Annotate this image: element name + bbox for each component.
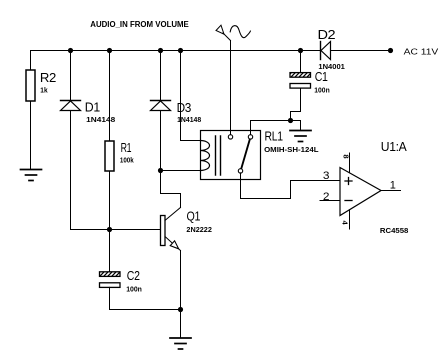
ground below R2 bbox=[21, 170, 42, 181]
node junction dot base rail bbox=[107, 227, 112, 232]
capacitor C1 bbox=[290, 51, 311, 121]
capacitor C2 bbox=[100, 230, 181, 310]
wire D1/R1 base rail bbox=[71, 229, 161, 231]
wire coil bottom tap to relay bbox=[161, 170, 201, 172]
svg-text:AUDIO_IN FROM VOLUME: AUDIO_IN FROM VOLUME bbox=[90, 20, 189, 29]
svg-text:1k: 1k bbox=[40, 86, 48, 95]
svg-text:AC 11V: AC 11V bbox=[404, 46, 439, 56]
transistor Q1 bbox=[161, 208, 181, 339]
svg-text:D3: D3 bbox=[177, 100, 192, 115]
relay pin circle coil top bbox=[228, 135, 232, 139]
node junction dot D3 branch bbox=[158, 48, 163, 53]
core bars bbox=[216, 136, 221, 175]
node junction dot relay coil branch bbox=[178, 48, 183, 53]
svg-text:100n: 100n bbox=[314, 86, 330, 95]
wire D3 cathode to relay coil tap and Q1 collector jog bbox=[161, 194, 181, 208]
wire bus to relay coil top bbox=[181, 51, 201, 141]
ground at emitter bbox=[170, 338, 191, 349]
AC input antenna symbol bbox=[216, 25, 250, 137]
svg-text:3: 3 bbox=[323, 170, 330, 182]
svg-text:D2: D2 bbox=[318, 27, 336, 42]
node junction dot C1 branch bbox=[298, 48, 303, 53]
node junction dot emitter/C2 bbox=[178, 307, 183, 312]
wire relay output to op-amp pin 3 bbox=[241, 173, 341, 199]
relay pin circle moving contact bbox=[238, 169, 242, 173]
wire main supply bus y=50 bbox=[31, 50, 321, 52]
power pin 8 top bbox=[349, 153, 351, 173]
svg-text:100n: 100n bbox=[126, 284, 142, 293]
output pin 1 wire bbox=[381, 190, 401, 192]
resistor R1 bbox=[105, 51, 114, 230]
svg-text:2: 2 bbox=[323, 191, 330, 203]
svg-text:1N4001: 1N4001 bbox=[318, 62, 345, 71]
svg-text:OMIH-SH-124L: OMIH-SH-124L bbox=[264, 145, 319, 154]
svg-text:U1:A: U1:A bbox=[381, 139, 407, 154]
svg-text:1: 1 bbox=[390, 179, 396, 191]
svg-text:100k: 100k bbox=[120, 156, 134, 165]
node junction dot relay coil bottom tap bbox=[158, 168, 163, 173]
svg-text:RL1: RL1 bbox=[265, 129, 283, 144]
svg-text:D1: D1 bbox=[85, 100, 100, 115]
wire AC output segment right of D2 bbox=[331, 50, 391, 52]
resistor R2 bbox=[26, 51, 35, 170]
svg-text:R2: R2 bbox=[40, 70, 56, 85]
relay lever bbox=[241, 139, 250, 169]
relay RL1 bbox=[201, 121, 291, 180]
node AC 11V terminal dot bbox=[388, 48, 393, 53]
wire common riser to ground rail bbox=[251, 121, 291, 137]
diode D1 bbox=[61, 51, 81, 230]
plus symbol bbox=[345, 178, 352, 185]
svg-text:C1: C1 bbox=[315, 69, 328, 84]
power pin 4 bottom bbox=[349, 210, 351, 229]
svg-text:RC4558: RC4558 bbox=[380, 226, 409, 235]
svg-text:1N4148: 1N4148 bbox=[86, 115, 115, 124]
svg-text:Q1: Q1 bbox=[187, 208, 201, 223]
node junction dot R1 branch bbox=[107, 48, 112, 53]
svg-text:C2: C2 bbox=[127, 268, 140, 283]
diode D2 bbox=[321, 42, 331, 60]
wire op-amp pin 2 stub bbox=[320, 200, 340, 202]
minus symbol bbox=[345, 200, 352, 202]
op-amp U1:A bbox=[340, 153, 401, 229]
wire ground stub bbox=[291, 121, 301, 131]
diode D3 bbox=[151, 51, 171, 194]
relay pin circle common bbox=[248, 135, 252, 139]
coil arcs bbox=[201, 141, 210, 171]
node junction dot D1 branch bbox=[68, 48, 73, 53]
svg-text:2N2222: 2N2222 bbox=[186, 225, 212, 234]
ground at C1/relay bbox=[290, 131, 311, 142]
svg-text:8: 8 bbox=[342, 154, 351, 158]
svg-text:R1: R1 bbox=[121, 140, 132, 155]
node junction dot ground rail bbox=[288, 118, 293, 123]
